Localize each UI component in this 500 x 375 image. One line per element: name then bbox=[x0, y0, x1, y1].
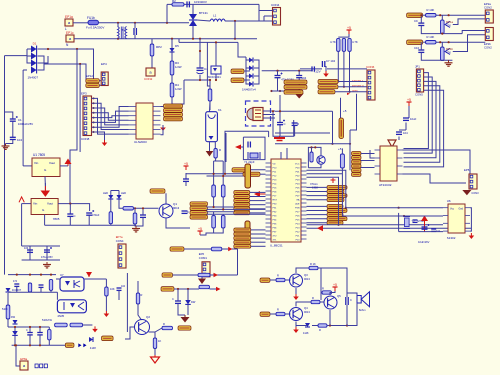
wire q2 base bbox=[125, 327, 134, 339]
optocoupler MOC bbox=[211, 66, 221, 74]
net stack EEleft bbox=[352, 152, 362, 156]
svg-text:4.7K: 4.7K bbox=[352, 40, 358, 44]
wire mcu up2 bbox=[286, 148, 288, 159]
svg-text:103/400V: 103/400V bbox=[194, 0, 207, 4]
wire q2 top bbox=[137, 281, 139, 293]
dots k1 pair bbox=[213, 173, 215, 175]
opto U7 bbox=[60, 277, 84, 291]
wire r31 right bbox=[210, 288, 217, 290]
wire q3 coll bbox=[296, 268, 309, 273]
connector EP right mid bbox=[469, 174, 477, 189]
ground pots bbox=[448, 60, 450, 63]
ground com1 bbox=[198, 279, 206, 285]
transistor Q5 bbox=[324, 296, 337, 309]
resistor R10 10K bbox=[426, 14, 437, 17]
wire row275 a bbox=[173, 274, 199, 276]
wire bridge left top bbox=[27, 48, 31, 50]
wire c7 gnd bbox=[325, 66, 327, 71]
wire RP2 up bbox=[151, 39, 153, 44]
svg-text:+5: +5 bbox=[184, 162, 188, 166]
svg-text:Q2: Q2 bbox=[146, 315, 150, 319]
wire u3 right stub bbox=[403, 174, 467, 183]
wire c6 stub bbox=[298, 78, 300, 91]
wire amp bot rail3 bbox=[327, 325, 347, 327]
wire k1 to mcu area bbox=[225, 133, 227, 162]
wire pillB1 bbox=[338, 81, 367, 83]
wire vert 77 bbox=[70, 49, 77, 204]
wire q6 r top bbox=[311, 147, 313, 152]
svg-text:R: R bbox=[297, 122, 299, 126]
resistor R16 bbox=[212, 216, 216, 229]
wire mcu pill r23 bbox=[307, 218, 328, 220]
svg-text:104: 104 bbox=[302, 76, 307, 80]
svg-text:Vout: Vout bbox=[47, 202, 53, 206]
wire bundle 0 bbox=[404, 73, 429, 149]
svg-text:LED: LED bbox=[121, 191, 126, 195]
ground bl2 bbox=[94, 326, 96, 329]
wire mleft5 bbox=[250, 212, 266, 214]
capacitor C k1 bbox=[183, 178, 189, 180]
svg-text:10K: 10K bbox=[110, 287, 115, 291]
svg-text:47K: 47K bbox=[446, 24, 451, 28]
trimmer RP1a bbox=[441, 20, 445, 34]
net bar serial bbox=[339, 118, 344, 139]
zener D12 bbox=[305, 323, 310, 327]
wire con4 p1 bbox=[259, 10, 273, 12]
capacitor C snub bbox=[186, 1, 188, 7]
svg-text:L1: L1 bbox=[213, 14, 217, 18]
wire ee pill1 bbox=[361, 153, 375, 155]
svg-text:7805: 7805 bbox=[53, 217, 60, 221]
dots289 bbox=[177, 288, 179, 290]
svg-text:+5: +5 bbox=[333, 283, 337, 287]
dots serial rows bbox=[337, 80, 339, 82]
wire RP2 down bbox=[151, 56, 153, 68]
net pill amp2 bbox=[260, 312, 270, 316]
wire u4 gnd bbox=[161, 125, 164, 135]
wire r28 q2 bbox=[138, 304, 142, 320]
power +5V U1 bbox=[67, 161, 69, 166]
resistor R28 bbox=[136, 293, 139, 304]
diode D2 bbox=[31, 53, 37, 60]
svg-text:CON2: CON2 bbox=[144, 77, 153, 81]
svg-text:XTAL1: XTAL1 bbox=[310, 182, 318, 186]
wire c29 leads bbox=[39, 327, 41, 333]
resistor R9 bbox=[348, 38, 351, 51]
power flag xtal bbox=[235, 145, 241, 150]
svg-text:C: C bbox=[74, 214, 76, 218]
resistor R27 bbox=[70, 323, 83, 327]
wire r9 down bbox=[349, 51, 351, 91]
wire mic p2 bbox=[263, 114, 275, 116]
wire 289 row bbox=[174, 288, 199, 290]
wire c15 down bbox=[294, 126, 296, 137]
wire CX1 top bbox=[134, 23, 136, 28]
diode D11 bbox=[89, 337, 93, 342]
svg-text:9013: 9013 bbox=[304, 277, 310, 281]
capacitor C31 bbox=[345, 297, 347, 305]
diode D9 bbox=[249, 82, 253, 87]
wire T1 bottom bbox=[117, 38, 119, 40]
wire mic long bbox=[275, 132, 330, 134]
wire con4 p3 bbox=[259, 20, 273, 22]
svg-text:RP2: RP2 bbox=[156, 45, 162, 49]
dots pot rows bbox=[439, 14, 441, 16]
junction J1 pin7 bbox=[93, 126, 95, 128]
wire DC rail B bbox=[44, 64, 86, 81]
svg-text:1N4007x4: 1N4007x4 bbox=[242, 88, 256, 92]
net bar left1 bbox=[245, 164, 251, 188]
power +5 k1 bbox=[185, 166, 187, 170]
wire C4 down bbox=[199, 75, 201, 80]
wire bus2 bbox=[207, 208, 266, 210]
wire u2 pwr stem bbox=[44, 183, 46, 190]
net pill bl2 bbox=[102, 336, 114, 341]
net label RXD bbox=[318, 85, 338, 89]
wire L right bbox=[225, 20, 259, 22]
capacitor C26 bbox=[39, 284, 44, 286]
junction J1 pin6 bbox=[93, 121, 95, 123]
dots u2 out bbox=[69, 203, 71, 205]
svg-text:Vin: Vin bbox=[34, 161, 39, 165]
wire T1 top bbox=[117, 23, 119, 27]
wire amp2 bbox=[270, 313, 276, 315]
svg-text:R 10K: R 10K bbox=[427, 35, 435, 39]
svg-text:1302: 1302 bbox=[312, 186, 318, 190]
wire br2 l2 bbox=[246, 59, 249, 61]
wire u2 rail bbox=[45, 224, 136, 226]
transistor Q6 bbox=[317, 156, 325, 164]
dots pl bbox=[16, 274, 18, 276]
wire U1 gnd bbox=[44, 177, 46, 187]
wire amp2b bbox=[285, 313, 291, 315]
svg-text:EP5: EP5 bbox=[464, 168, 470, 172]
wire mcu long2 bbox=[307, 227, 472, 229]
wire U1 in bbox=[23, 165, 32, 167]
wire rp1a bot bbox=[441, 33, 443, 35]
svg-text:R: R bbox=[312, 296, 314, 300]
wire c30 top bbox=[177, 289, 179, 301]
resistor R8 bbox=[342, 38, 345, 51]
red flag row249 bbox=[228, 247, 232, 251]
eeprom U3 bbox=[380, 146, 397, 181]
wire long 143 bbox=[275, 143, 350, 145]
net label AOUT1 bbox=[407, 13, 423, 18]
wire bridge right bracket bbox=[38, 56, 45, 70]
junction J1 pin3 bbox=[93, 107, 95, 109]
wire r13 bot bbox=[135, 217, 143, 226]
wire c28 leads bbox=[29, 327, 31, 333]
wire pillB2 bbox=[338, 86, 367, 88]
svg-text:9013: 9013 bbox=[304, 310, 310, 314]
svg-text:4148: 4148 bbox=[303, 332, 309, 335]
wire opto2 lv bbox=[56, 292, 58, 300]
net label NRXD bbox=[284, 85, 307, 89]
wire r40 vert bbox=[342, 168, 443, 216]
resistor R7 bbox=[337, 38, 340, 51]
wire c1-c2 bbox=[12, 121, 14, 137]
svg-text:CON4: CON4 bbox=[271, 3, 280, 7]
crystal Y1 bbox=[250, 153, 258, 158]
svg-text:CON2: CON2 bbox=[484, 6, 492, 10]
wire bridge in2 bbox=[27, 55, 31, 57]
wire bundle 1 bbox=[404, 77, 433, 153]
fuse FU1 bbox=[88, 20, 99, 25]
port EP1a L bbox=[65, 19, 73, 26]
wire com1 gnd bbox=[201, 277, 203, 279]
svg-text:EP8a: EP8a bbox=[20, 357, 27, 361]
ground br2 bbox=[298, 91, 300, 94]
wire rail2 bbox=[179, 41, 238, 43]
resistor R15 bbox=[221, 185, 225, 197]
svg-text:+5: +5 bbox=[338, 147, 342, 151]
power +5 amp bbox=[334, 287, 336, 291]
wire ds bottom bbox=[399, 231, 443, 233]
wire mleft22 bbox=[251, 237, 266, 239]
net pill 287 bbox=[161, 287, 174, 292]
svg-text:CON2: CON2 bbox=[484, 46, 492, 50]
net pill row249 bbox=[170, 247, 184, 251]
wire con4 v bbox=[263, 16, 265, 21]
wire r21 down bbox=[7, 319, 9, 327]
wire q1 emitter bbox=[166, 219, 190, 229]
svg-text:Gnd: Gnd bbox=[458, 208, 463, 211]
wire j1 route 6 bbox=[92, 107, 129, 128]
dots box80 bbox=[199, 79, 201, 81]
wire c31 v2 bbox=[346, 305, 348, 326]
wire j1 pin8 gnd bbox=[92, 132, 105, 140]
wire q3 coll2 bbox=[318, 268, 347, 293]
wire mleft3 bbox=[250, 204, 266, 206]
wire ds left v bbox=[398, 213, 400, 232]
svg-text:C: C bbox=[26, 329, 28, 332]
wire mcu pill r21 bbox=[307, 210, 328, 212]
junction rail A bbox=[47, 48, 49, 50]
diode D3 bbox=[31, 60, 37, 67]
net matrix right of U4 bbox=[164, 104, 183, 108]
ground opto1 bbox=[105, 311, 107, 314]
svg-text:Q4: Q4 bbox=[304, 306, 308, 310]
wire r30 down bbox=[154, 349, 156, 356]
wire moc up bbox=[215, 42, 217, 66]
capacitor C10 104 bbox=[418, 49, 424, 51]
net label NINT bbox=[284, 90, 303, 94]
wire rc down2 bbox=[398, 137, 400, 141]
wire bl row top bbox=[8, 326, 49, 328]
wire mic p1 bbox=[263, 110, 275, 112]
svg-text:470uF: 470uF bbox=[92, 213, 100, 217]
wire mleft4 bbox=[250, 208, 266, 210]
capacitor C16 bbox=[140, 214, 146, 216]
wire q5 coll bbox=[330, 293, 332, 296]
wire row249b bbox=[222, 248, 238, 250]
wire c2 gnd bbox=[6, 140, 13, 144]
capacitor C20 bbox=[27, 249, 33, 251]
svg-text:CON4: CON4 bbox=[116, 239, 124, 243]
wire long right v bbox=[126, 273, 128, 332]
wire U1 feed vert bbox=[22, 70, 24, 166]
connector EP small bbox=[101, 72, 108, 86]
svg-text:Q5: Q5 bbox=[337, 294, 341, 298]
wire R4 down bbox=[171, 97, 173, 104]
wire moc down bbox=[215, 74, 217, 80]
capacitor C7 104 bbox=[321, 61, 323, 67]
svg-text:Fu 0.5A/250V: Fu 0.5A/250V bbox=[86, 26, 104, 30]
svg-text:C7 104: C7 104 bbox=[326, 59, 335, 63]
wire c20 v bbox=[29, 246, 31, 260]
svg-text:VCC: VCC bbox=[295, 163, 300, 165]
power +5 r16 bbox=[199, 231, 201, 235]
junction J1 pin2 bbox=[93, 102, 95, 104]
power arrow U2 bbox=[44, 186, 46, 191]
wire mleft1 bbox=[250, 196, 266, 198]
capacitor C13 bbox=[247, 142, 249, 148]
net label TXD bbox=[318, 80, 338, 84]
wire bl rail2 bbox=[22, 259, 60, 261]
wire r23 d bbox=[50, 290, 52, 292]
mic body bbox=[247, 108, 253, 120]
svg-text:S1302: S1302 bbox=[447, 236, 456, 240]
wire j1 route 3 bbox=[92, 113, 129, 121]
svg-text:4N35: 4N35 bbox=[57, 314, 64, 318]
wire br2 to c14 bbox=[279, 95, 281, 122]
connector COM1 bbox=[202, 262, 210, 277]
svg-text:T1: T1 bbox=[122, 28, 126, 32]
wire c21 v bbox=[46, 246, 48, 260]
wire c7 left bbox=[300, 68, 322, 70]
net label pill A2 bbox=[231, 78, 244, 83]
wire led top2 bbox=[118, 191, 120, 196]
svg-text:DW: DW bbox=[191, 300, 196, 304]
led L2 bbox=[117, 195, 122, 199]
svg-text:1N4007: 1N4007 bbox=[28, 76, 39, 80]
wire led1 to r19 bbox=[110, 199, 112, 212]
svg-text:474: 474 bbox=[13, 280, 18, 283]
wire rc mid bbox=[405, 123, 407, 131]
wire mcu p1c bbox=[307, 177, 339, 225]
capacitor C8 bbox=[311, 66, 313, 71]
net pill q2 bbox=[178, 326, 191, 330]
svg-text:EP3: EP3 bbox=[81, 92, 87, 96]
wire r11 right bbox=[436, 41, 485, 43]
wire bus4 bbox=[207, 213, 266, 215]
wire c18 top bbox=[69, 204, 71, 214]
wire snubber top bbox=[167, 3, 259, 5]
transistor Q2 bbox=[135, 320, 150, 335]
wire box 184 bbox=[184, 80, 210, 89]
net bar left2 bbox=[245, 221, 250, 239]
wire mcu pill r24 bbox=[307, 222, 328, 224]
wire k1 gnd stub bbox=[209, 142, 211, 151]
svg-text:+5: +5 bbox=[198, 227, 202, 231]
wire xtal box bbox=[243, 137, 265, 160]
driver U4 ULN2003 bbox=[136, 103, 153, 139]
port EP8 bbox=[20, 361, 28, 370]
wire r8 down bbox=[343, 51, 345, 86]
wire bridge to left bbox=[5, 55, 28, 57]
wire mcu pill r22 bbox=[307, 214, 328, 216]
wire row1 bottom bbox=[421, 26, 462, 34]
wire serial v2 bbox=[350, 94, 357, 130]
wire u2 out bbox=[58, 204, 90, 211]
wire d10 r21 bbox=[7, 293, 9, 305]
ground J1 bbox=[104, 140, 106, 143]
wire c30 bot bbox=[178, 304, 185, 316]
wire c28 lead2 bbox=[29, 335, 31, 345]
zener DW3 bbox=[185, 300, 191, 304]
wire fuse to line bbox=[99, 22, 190, 24]
wire 179 up bbox=[178, 39, 180, 43]
resistor R39 bbox=[310, 152, 313, 162]
capacitor C6 104 bbox=[296, 75, 302, 77]
wire xtal2 to mcu bbox=[260, 173, 266, 175]
svg-text:D5: D5 bbox=[175, 44, 179, 48]
wire r22 d bbox=[29, 291, 31, 293]
capacitor C27 bbox=[117, 287, 122, 289]
red arrow mcu right bbox=[317, 225, 323, 231]
svg-text:4.7K: 4.7K bbox=[330, 40, 336, 44]
wire u3 left stub bbox=[370, 150, 375, 158]
capacitor C15 bbox=[292, 122, 298, 124]
svg-text:EP1a: EP1a bbox=[65, 15, 73, 19]
resistor R20 bbox=[123, 207, 134, 210]
net pill XTAL1 bbox=[232, 168, 249, 172]
ground bl bbox=[46, 262, 48, 265]
svg-text:R: R bbox=[319, 328, 321, 332]
transistor Q4 bbox=[290, 308, 303, 321]
wire bus1 bbox=[207, 206, 234, 208]
wire zener down bbox=[171, 52, 173, 61]
wire r16 down bbox=[214, 228, 224, 233]
resistor R3 bbox=[170, 61, 174, 75]
resistor R6 bbox=[208, 89, 212, 101]
red arrow mcu left bbox=[254, 191, 260, 197]
resistor R26 bbox=[55, 323, 68, 327]
ic U6 DS1302 bbox=[448, 204, 465, 233]
svg-text:Vin: Vin bbox=[33, 202, 38, 206]
wire q4 em bbox=[295, 322, 297, 328]
resistor R22 bbox=[28, 283, 31, 292]
svg-text:+5: +5 bbox=[407, 98, 411, 102]
resistor R30 bbox=[153, 338, 156, 349]
opto U8 bbox=[57, 300, 86, 313]
wire r13 top bbox=[134, 208, 136, 213]
wire br2 right bbox=[254, 60, 259, 84]
wire r17 up bbox=[222, 214, 224, 215]
triac BT1 bbox=[189, 14, 197, 20]
wire dw3 top bbox=[187, 289, 189, 300]
wire k1 out v1 bbox=[213, 161, 215, 185]
port CON2 bbox=[146, 68, 155, 76]
connector EPs2 bbox=[485, 28, 493, 41]
junction J1 pin8 bbox=[93, 131, 95, 133]
wire CX1 bottom bbox=[134, 35, 136, 39]
wire r36 pwr bbox=[332, 291, 336, 293]
wire r16 pwr bbox=[200, 233, 214, 235]
wire c5 top stub bbox=[277, 71, 279, 76]
trimmer RP1b bbox=[441, 47, 445, 61]
inductor L1 bbox=[210, 19, 225, 21]
svg-text:C: C bbox=[172, 297, 174, 301]
svg-text:R: R bbox=[277, 274, 279, 278]
ground serial bbox=[325, 71, 327, 74]
svg-text:CON8: CON8 bbox=[81, 137, 90, 141]
trimmer RP2 bbox=[150, 44, 154, 56]
dot C4 bbox=[199, 50, 201, 52]
net pill bl bbox=[65, 343, 74, 347]
capacitor C25 bbox=[14, 283, 19, 285]
connector EPs1 bbox=[485, 10, 493, 23]
